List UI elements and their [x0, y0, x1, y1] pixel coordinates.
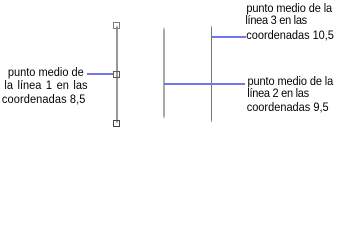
label: line 1 midpoint text, row 3: [2, 93, 86, 106]
line 1 (vertical segment at x=8): [116, 25, 118, 124]
leader wire to line 2 midpoint: [164, 83, 244, 85]
label: line 3 midpoint text, row 2: [245, 14, 307, 27]
line 3 (vertical segment at x=10): [211, 25, 213, 123]
label: line 2 midpoint text, row 3: [247, 101, 329, 114]
handle: line 1 top endpoint: [113, 22, 120, 29]
label: line 1 midpoint text, row 2: [4, 79, 87, 92]
leader wire to line 1 midpoint: [87, 73, 113, 75]
label: line 3 midpoint text, row 3: [246, 29, 334, 42]
leader wire to line 3 midpoint: [212, 36, 246, 38]
line 2 (vertical segment at x=9): [163, 27, 165, 119]
label: line 1 midpoint text, row 1: [8, 66, 84, 79]
label: line 2 midpoint text, row 2: [247, 87, 309, 100]
label: line 2 midpoint text, row 1: [248, 75, 334, 88]
handle: line 1 bottom endpoint: [113, 120, 120, 127]
label: line 3 midpoint text, row 1: [246, 2, 332, 15]
handle: line 1 midpoint (8,5): [113, 71, 120, 78]
